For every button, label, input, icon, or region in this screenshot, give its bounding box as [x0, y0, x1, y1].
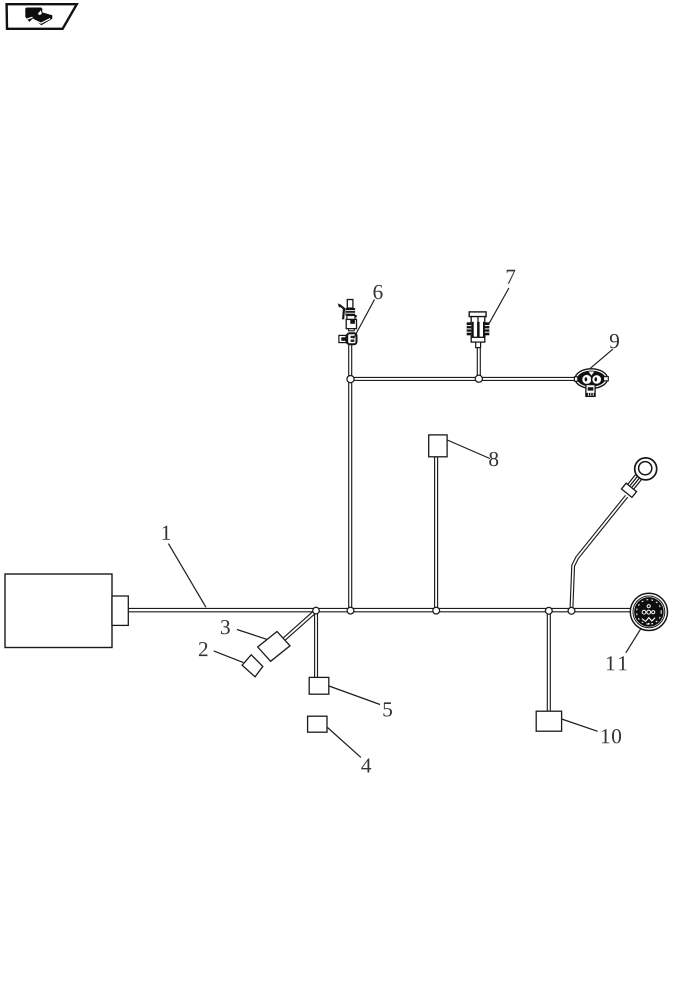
component 3: angled connector: [258, 632, 290, 662]
logo emblem: [25, 8, 52, 26]
leader line 2: [214, 651, 244, 663]
component 4: connector box: [308, 716, 327, 732]
wire: drop from component 7: [476, 348, 478, 378]
component 7: solenoid sensor: [467, 312, 490, 348]
wire: drop to component 5: [314, 612, 316, 678]
logo frame: [7, 4, 77, 29]
wire: drop from component 6: [348, 345, 350, 610]
label 6: [373, 285, 382, 299]
leader line 4: [328, 728, 361, 758]
component 1: control module block: [5, 574, 112, 648]
leader line 10: [562, 719, 598, 731]
label 2: [199, 642, 208, 656]
ring terminal eyelet: [621, 458, 656, 497]
label 1: [163, 526, 170, 540]
component 2: angled connector: [242, 655, 263, 677]
label 11: [607, 656, 614, 670]
component 1 connector tab: [112, 596, 128, 625]
component 6: sensor with connector: [338, 300, 357, 345]
wire: drop from component 8: [434, 457, 436, 609]
leader line 8: [447, 440, 490, 459]
leader line 3: [237, 630, 267, 640]
wire: upper branch bus: [351, 376, 577, 378]
label 5: [383, 702, 392, 716]
wire: main harness bus (double line): [128, 345, 631, 712]
component 9: two-pin connector: [574, 369, 608, 397]
wire: drop to component 10: [546, 612, 548, 711]
label 9: [610, 334, 619, 348]
label 3: [221, 620, 230, 634]
leader line 1: [168, 544, 206, 608]
leader line 7: [489, 288, 509, 325]
label 7: [507, 270, 516, 284]
junction circles: [313, 375, 575, 614]
leader line 6: [354, 300, 375, 339]
component 5: connector box: [309, 677, 329, 694]
label 4: [361, 758, 371, 772]
leader line 5: [329, 686, 380, 705]
label 10: [602, 729, 609, 743]
component 8: connector box: [429, 435, 447, 457]
wire: lead to ring terminal: [570, 495, 625, 607]
leader line 9: [589, 349, 613, 369]
component 10: connector box: [536, 711, 561, 731]
wire: diagonal branch to component 3: [283, 610, 315, 639]
component 11: round multipin connector: [630, 593, 667, 630]
leader line 11: [626, 629, 641, 653]
label 8: [489, 452, 498, 466]
